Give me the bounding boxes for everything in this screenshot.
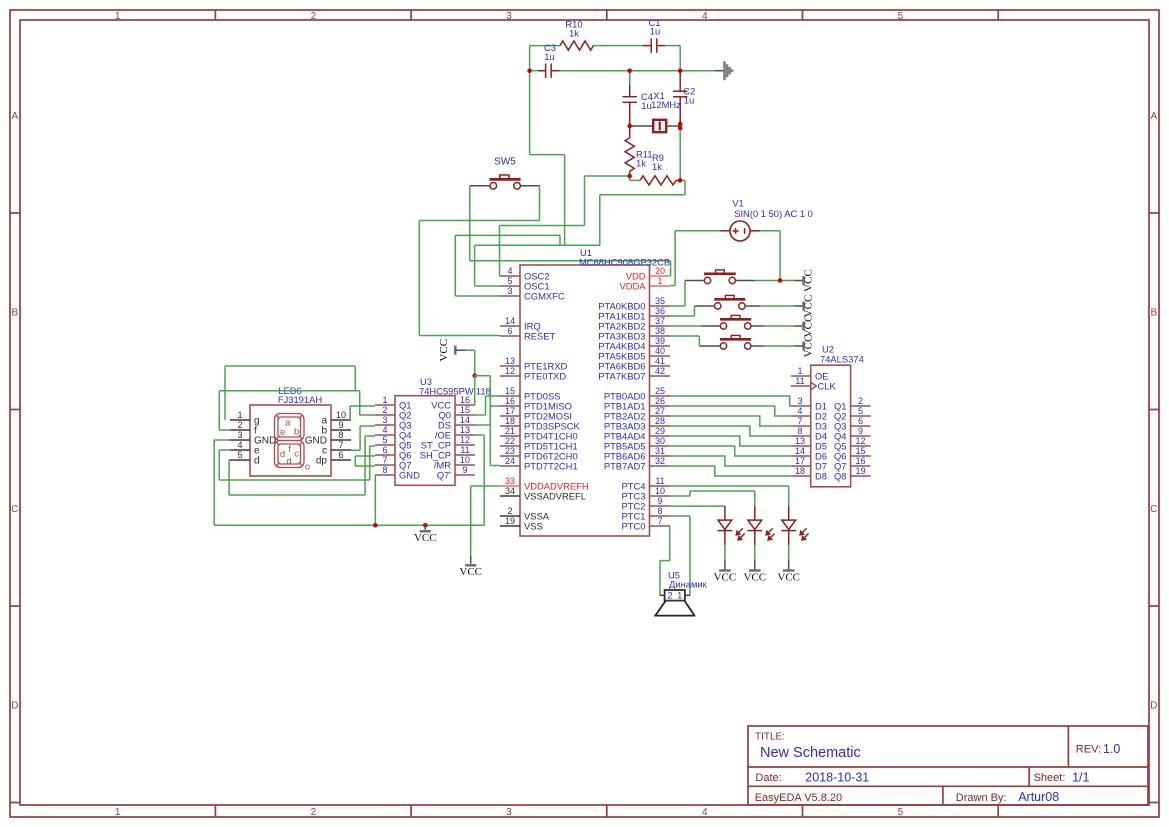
wire PTC4 drop [788, 486, 790, 506]
svg-text:2: 2 [382, 405, 387, 415]
U2 pin 11 CLK [791, 385, 811, 387]
svg-text:15: 15 [855, 446, 865, 456]
wire into PTA0 pin [670, 305, 685, 307]
wire PTB2 to D3 [670, 416, 791, 426]
U1 pin 7 PTC0 [650, 525, 671, 527]
svg-text:5: 5 [507, 276, 512, 286]
U1 pin 3 CGMXFC [500, 295, 520, 297]
svg-text:VCC: VCC [459, 566, 482, 578]
title block [748, 726, 1148, 805]
U2 pin 5 Q2 [851, 415, 871, 417]
svg-text:VSSADVREFL: VSSADVREFL [524, 490, 586, 501]
wire C3 row to ground [560, 70, 715, 72]
svg-text:4: 4 [797, 406, 802, 416]
wire into d pin [228, 459, 231, 461]
wire Q0 rise [485, 396, 487, 415]
power flag VCC button1 [802, 276, 804, 285]
wire U3 Q4 [365, 435, 375, 437]
svg-text:10: 10 [336, 410, 346, 420]
svg-text:1k: 1k [569, 28, 579, 39]
svg-text:f: f [288, 444, 291, 455]
wire into U3 Q2 [360, 414, 375, 416]
svg-text:e: e [280, 427, 285, 438]
wire net-D horizontal [600, 194, 685, 196]
svg-text:1u: 1u [544, 51, 554, 62]
wire VDD net horizontal [470, 260, 671, 262]
svg-text:16: 16 [505, 396, 515, 406]
wire PTC3 drop [754, 491, 756, 506]
svg-text:1.0: 1.0 [1103, 742, 1120, 756]
U2 pin 18 D8 [791, 475, 811, 477]
U1 pin 40 PTA5KBD5 [650, 355, 671, 357]
svg-text:8: 8 [338, 430, 343, 440]
wire into VDDA pin [670, 285, 675, 287]
wire osc row 245 [475, 244, 601, 246]
wire PTC1 down to speaker [689, 516, 691, 595]
U1 pin 13 PTE1RXD [500, 365, 520, 367]
svg-text:PTB7AD7: PTB7AD7 [604, 460, 646, 471]
LED6 pin 3 GND [230, 439, 250, 441]
U1 pin 11 PTC4 [650, 485, 671, 487]
svg-text:22: 22 [505, 436, 515, 446]
svg-text:7: 7 [797, 416, 802, 426]
svg-text:32: 32 [655, 456, 665, 466]
svg-text:8: 8 [657, 506, 662, 516]
svg-text:Date:: Date: [755, 772, 781, 784]
svg-text:D: D [11, 700, 18, 711]
U3 pin 2 Q2 [375, 414, 395, 416]
wire button2 right lead [745, 305, 760, 307]
U1 pin 14 IRQ [500, 325, 520, 327]
U1 pin 19 VSS [500, 525, 520, 527]
wire V1 down to button row [779, 231, 781, 281]
wire button4 left lead [699, 345, 720, 347]
LED6 pin 2 f [230, 429, 250, 431]
svg-text:TITLE:: TITLE: [755, 732, 785, 743]
resistor R11 [625, 138, 634, 171]
push button S4 [720, 338, 751, 341]
U1 pin 25 PTB0AD0 [650, 395, 671, 397]
wire U3 Q1 [350, 405, 375, 407]
U3 pin 5 Q5 [375, 444, 395, 446]
svg-text:1: 1 [237, 410, 242, 420]
wire V1 left red lead [720, 230, 730, 232]
svg-text:3: 3 [506, 11, 512, 22]
U1 pin 20 VDD [650, 275, 671, 277]
svg-text:2: 2 [858, 396, 863, 406]
U1 pin 8 PTC1 [650, 515, 671, 517]
wire VCC vertical [474, 350, 476, 376]
svg-text:19: 19 [505, 516, 515, 526]
svg-text:1k: 1k [652, 161, 662, 172]
wire C3 left lead [530, 70, 538, 72]
svg-text:5: 5 [382, 435, 387, 445]
wire into OSC1 pin [475, 285, 500, 287]
7-segment display LED6 body [250, 405, 331, 476]
svg-text:1k: 1k [636, 158, 646, 169]
wire V1 right horizontal [760, 230, 780, 232]
svg-text:SW5: SW5 [494, 157, 516, 168]
svg-text:13: 13 [505, 356, 515, 366]
wire top loop 1 right drop [354, 366, 356, 391]
LED6 pin 5 d [230, 459, 250, 461]
svg-text:39: 39 [655, 336, 665, 346]
wire SW5 right drop [539, 186, 541, 221]
svg-text:7: 7 [382, 455, 387, 465]
svg-text:11: 11 [460, 445, 469, 455]
svg-text:VCC: VCC [714, 572, 737, 584]
wire SW5 bottom rail [419, 220, 539, 222]
svg-text:4: 4 [702, 807, 708, 818]
svg-text:7: 7 [338, 440, 343, 450]
wire VCC flag stem lower [470, 556, 472, 564]
U3 pin 12 ST_CP [455, 444, 475, 446]
wire U3 Q7 [355, 465, 375, 467]
wire into e pin [219, 449, 230, 451]
svg-text:New Schematic: New Schematic [760, 745, 861, 761]
capacitor C2 [679, 71, 681, 92]
wire button1 to PTA0 [684, 281, 686, 307]
capacitor C2 plates [673, 91, 687, 97]
svg-text:Динамик: Динамик [669, 579, 708, 590]
LED6 pin 8 GND [331, 439, 351, 441]
svg-text:b: b [294, 426, 299, 437]
capacitor C3 plates [546, 64, 552, 78]
resistor R10 [560, 41, 593, 50]
svg-text:3: 3 [237, 430, 242, 440]
wire into CGMXFC pin [455, 295, 500, 297]
svg-text:27: 27 [655, 406, 665, 416]
svg-text:FJ3191AH: FJ3191AH [278, 394, 322, 405]
U3 pin 1 Q1 [375, 404, 395, 406]
node rail VCC junction [423, 523, 428, 528]
wire osc row 235 [455, 234, 560, 236]
svg-text:1: 1 [382, 395, 387, 405]
svg-text:14: 14 [460, 415, 470, 425]
svg-text:12: 12 [460, 435, 470, 445]
wire R11 to R9 link [629, 176, 631, 180]
wire LED GND pin [214, 439, 230, 441]
wire R9 left lead [630, 179, 640, 181]
svg-text:18: 18 [505, 416, 515, 426]
U1 pin 21 PTD4T1CH0 [500, 435, 520, 437]
wire PTC4 to LED3 [670, 485, 789, 487]
wire R10 to C1 [593, 45, 643, 47]
U1 pin 2 VSSA [500, 515, 520, 517]
svg-text:Q7': Q7' [437, 469, 452, 480]
wire button3 right lead [751, 325, 764, 327]
wire Q1 drop to a [349, 406, 351, 420]
wire loop2 right drop [359, 391, 361, 415]
svg-text:7: 7 [657, 516, 662, 526]
svg-text:8: 8 [797, 426, 802, 436]
U2 pin 12 Q5 [851, 445, 871, 447]
frame row letters [11, 111, 1157, 711]
svg-text:1u: 1u [650, 26, 660, 37]
wire PTB6 to D7 [670, 456, 791, 466]
svg-text:12MHz: 12MHz [651, 99, 681, 110]
svg-text:10: 10 [460, 455, 470, 465]
wire SW5-left vertical to VDD net [469, 186, 471, 261]
svg-text:40: 40 [655, 346, 665, 356]
svg-text:35: 35 [655, 296, 665, 306]
wire down to OSC2 [499, 226, 501, 277]
wire long vertical U3-U1 channel [489, 376, 491, 466]
svg-text:Artur08: Artur08 [1018, 790, 1059, 804]
LED LED3 [781, 506, 796, 545]
wire into PTA1 pin [670, 315, 695, 317]
wire left drop to C3 row [529, 46, 531, 71]
node rail U3-GND junction [373, 523, 378, 528]
wire into c pin [351, 449, 360, 451]
op-amp U2 body 74ALS374 [811, 365, 851, 487]
wire VDDADVREFH [471, 485, 500, 487]
svg-text:VCC: VCC [803, 335, 815, 358]
svg-text:33: 33 [505, 476, 515, 486]
wire down to U3 VCC pin [474, 376, 476, 405]
LED6 pin 9 b [331, 429, 351, 431]
U3 pin 14 DS [455, 424, 475, 426]
svg-text:GND: GND [399, 469, 420, 480]
U2 CLK wedge [811, 382, 817, 390]
wire U3 Q5 [370, 445, 375, 447]
svg-text:Q8: Q8 [834, 470, 847, 481]
svg-text:1: 1 [797, 366, 802, 376]
svg-text:Drawn By:: Drawn By: [956, 792, 1007, 804]
svg-text:31: 31 [655, 446, 665, 456]
svg-text:20: 20 [655, 266, 665, 276]
LED6 pin 6 dp [331, 459, 351, 461]
svg-text:VCC: VCC [414, 532, 437, 544]
U1 pin 16 PTD1MISO [500, 405, 520, 407]
wire R9 right jog [680, 179, 685, 181]
wire down to OSC1 [474, 245, 476, 286]
svg-text:9: 9 [657, 496, 662, 506]
wire U3 Q0 jog [475, 414, 486, 416]
wire into PTA2 pin [670, 325, 702, 327]
svg-text:VCC: VCC [438, 339, 450, 362]
op-amp U1 body MC68HC908GP32CB [520, 265, 650, 536]
wire button4 right lead [751, 345, 764, 347]
svg-text:D: D [1150, 700, 1157, 711]
svg-text:17: 17 [795, 456, 805, 466]
wire rail down to RESET [418, 221, 420, 336]
wire button1 left lead [685, 280, 704, 282]
frame column numbers top [115, 11, 904, 22]
wire SW5 right lead [520, 185, 539, 187]
wire V1 left to VDDA column [675, 230, 720, 232]
U3 pin 4 Q4 [375, 434, 395, 436]
wire button4 rise to PTA3 [698, 336, 700, 346]
svg-text:5: 5 [898, 807, 904, 818]
capacitor C1 plates [651, 38, 657, 52]
wire g-loop vertical left [224, 366, 226, 420]
wire U3 Q6 [355, 455, 375, 457]
wire button1 right lead [736, 280, 755, 282]
U1 pin 28 PTB3AD3 [650, 425, 671, 427]
svg-text:dp: dp [316, 456, 328, 467]
power flag VCC rail [420, 530, 431, 532]
wire VCC4 stub [794, 345, 803, 347]
node crystal-right junction [678, 126, 683, 131]
svg-text:C: C [1150, 504, 1157, 515]
U1 pin 26 PTB1AD1 [650, 405, 671, 407]
svg-text:9: 9 [858, 426, 863, 436]
wire button2 left lead [695, 305, 715, 307]
svg-text:1: 1 [115, 807, 121, 818]
svg-text:a: a [285, 418, 291, 429]
svg-text:13: 13 [795, 436, 805, 446]
capacitor C4 plates [623, 97, 637, 103]
svg-text:38: 38 [655, 326, 665, 336]
wire LED GND down to rail [213, 440, 215, 525]
U5 pin 1 stub [685, 594, 690, 596]
wire into RESET pin [419, 335, 500, 337]
wire C4 top lead green [629, 71, 631, 85]
svg-text:30: 30 [655, 436, 665, 446]
svg-text:3: 3 [506, 807, 512, 818]
svg-text:VSS: VSS [524, 520, 543, 531]
svg-text:d: d [280, 449, 285, 460]
U1 pin 12 PTE0TXD [500, 375, 520, 377]
wire VCC flag stem [455, 349, 466, 351]
svg-text:CLK: CLK [818, 380, 837, 391]
wire PTC0 jog [660, 560, 670, 562]
svg-text:6: 6 [858, 416, 863, 426]
svg-text:A: A [1150, 111, 1157, 122]
U1 pin 24 PTD7T2CH1 [500, 465, 520, 467]
U1 pin 34 VSSADVREFL [500, 495, 520, 497]
op-amp U3 body 74HC595PW [395, 396, 455, 486]
wire U3 /OE jog [475, 434, 485, 436]
power flag VCC button4 [802, 342, 804, 351]
wire PTB3 to D4 [670, 426, 791, 436]
svg-text:16: 16 [460, 395, 470, 405]
svg-text:4: 4 [382, 425, 387, 435]
svg-text:12: 12 [505, 366, 515, 376]
svg-text:Sheet:: Sheet: [1034, 772, 1066, 784]
wire VCC3 stub [794, 325, 803, 327]
LED6 pin 1 g [230, 419, 250, 421]
power flag VCC mid [454, 346, 456, 355]
LED LED1 [718, 506, 733, 545]
svg-text:3: 3 [507, 286, 512, 296]
U3 pin 15 Q0 [455, 414, 475, 416]
wire VCC junction right [475, 375, 491, 377]
wire PTB0 to D1 [670, 396, 791, 406]
wire SW5 left lead [470, 185, 490, 187]
wire crystal right down to R9 [679, 126, 681, 180]
node C2-top junction [678, 68, 683, 73]
wire bottom loop 2 [229, 494, 365, 496]
wire PTC3 to LED2 [690, 490, 755, 492]
svg-text:28: 28 [655, 416, 665, 426]
U2 pin 1 OE [791, 375, 811, 377]
svg-text:d: d [286, 456, 291, 467]
svg-text:V1: V1 [732, 198, 743, 209]
wire PTC2 to LED1 [670, 505, 725, 507]
wire PTB4 to D5 [670, 436, 791, 446]
svg-text:36: 36 [655, 306, 665, 316]
svg-text:23: 23 [505, 446, 515, 456]
wire f-loop vertical left [218, 391, 220, 430]
svg-text:1: 1 [677, 591, 682, 601]
svg-text:3: 3 [382, 415, 387, 425]
capacitor C3 [538, 70, 546, 72]
svg-text:REV:: REV: [1076, 744, 1101, 756]
svg-text:41: 41 [655, 356, 665, 366]
U1 pin 9 PTC2 [650, 505, 671, 507]
wire U3 DS to channel [475, 424, 491, 426]
U1 pin 17 PTD2MOSI [500, 415, 520, 417]
svg-text:PTE0TXD: PTE0TXD [524, 370, 566, 381]
svg-text:17: 17 [505, 406, 515, 416]
U1 pin 42 PTA7KBD7 [650, 375, 671, 377]
wire PTB7 to D8 [670, 466, 791, 476]
U2 pin 14 D6 [791, 455, 811, 457]
node R9-right junction [678, 178, 683, 183]
wire /OE down to rail [483, 435, 485, 525]
svg-text:18: 18 [795, 466, 805, 476]
ground symbol [715, 70, 724, 72]
svg-text:74ALS374: 74ALS374 [820, 354, 864, 365]
svg-text:B: B [1150, 308, 1157, 319]
U1 pin 4 OSC2 [500, 275, 520, 277]
wire PTC1 [670, 515, 690, 517]
wire button3 to VCC [764, 325, 794, 327]
wire into PTD7T2CH1 pin [490, 465, 500, 467]
wire top loop 1 [225, 365, 355, 367]
U2 pin 6 Q3 [851, 425, 871, 427]
svg-text:9: 9 [338, 420, 343, 430]
U2 pin 16 Q7 [851, 465, 871, 467]
svg-text:CGMXFC: CGMXFC [524, 290, 565, 301]
wire net-A left vertical [529, 71, 531, 155]
wire U3 GND down to rail [374, 475, 376, 525]
U1 pin 15 PTD0SS [500, 395, 520, 397]
U1 pin 6 RESET [500, 335, 520, 337]
svg-text:o: o [305, 462, 310, 473]
wire button1 to VCC [755, 280, 795, 282]
node VCC junction [472, 373, 477, 378]
node C3-left junction [527, 68, 532, 73]
U3 pin 6 Q6 [375, 454, 395, 456]
svg-text:2: 2 [507, 506, 512, 516]
U1 pin 5 OSC1 [500, 285, 520, 287]
svg-text:A: A [11, 111, 18, 122]
wire down to CGMXFC [454, 235, 456, 296]
svg-text:2018-10-31: 2018-10-31 [805, 770, 869, 784]
svg-text:19: 19 [855, 466, 865, 476]
svg-text:4: 4 [507, 266, 512, 276]
U1 pin 35 PTA0KBD0 [650, 305, 671, 307]
svg-text:2: 2 [311, 807, 317, 818]
push button S2 [714, 298, 745, 301]
wire Q4 drop [364, 436, 366, 495]
svg-text:c: c [294, 449, 299, 460]
svg-text:74HC595PW,118: 74HC595PW,118 [419, 386, 491, 397]
node button1 VCC junction [778, 278, 783, 283]
wire PTC0 down [669, 526, 671, 561]
LED6 segment letters [280, 418, 310, 473]
U1 pin 33 VDDADVREFH [500, 485, 520, 487]
U1 pin 41 PTA6KBD6 [650, 365, 671, 367]
svg-text:d: d [254, 456, 260, 467]
capacitor C4 [629, 85, 631, 97]
wire into f pin [219, 429, 230, 431]
U3 pin 10 /MR [455, 464, 475, 466]
U1 pin 23 PTD6T2CH0 [500, 455, 520, 457]
